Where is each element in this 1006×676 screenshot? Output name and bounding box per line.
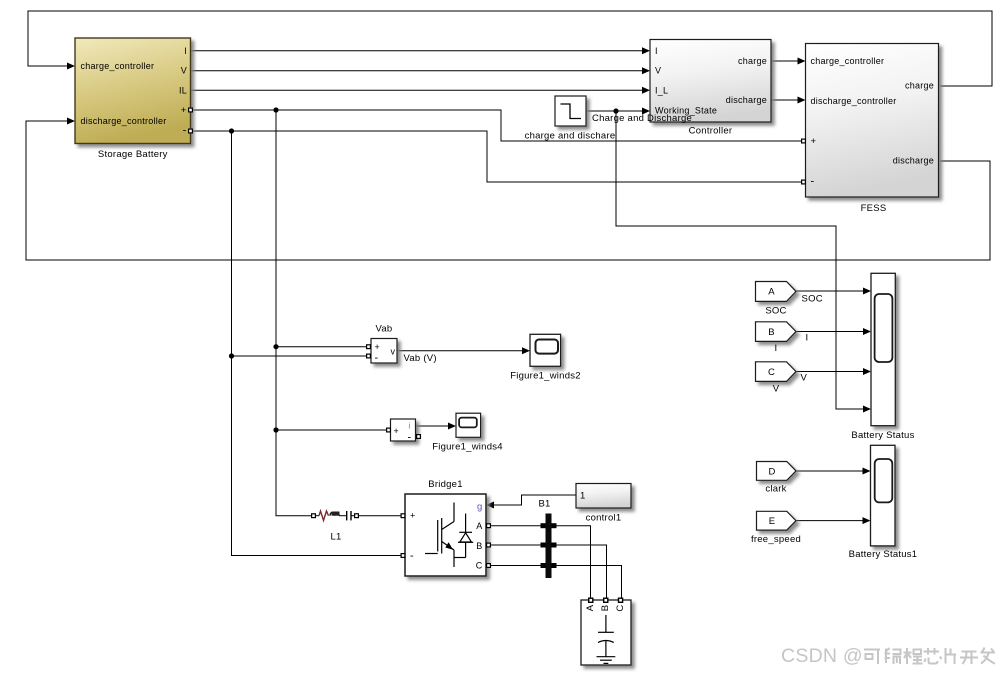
svg-text:charge_controller: charge_controller <box>81 61 155 71</box>
From tag A (SOC) <box>756 282 797 317</box>
wire vertical bus from + node down to L1 <box>276 110 311 516</box>
wire L1 -> Bridge1 + <box>359 515 401 517</box>
svg-text:+: + <box>811 136 817 147</box>
From tag B (I) <box>756 322 797 354</box>
svg-text:1: 1 <box>580 491 586 502</box>
anti-parallel diode inside Bridge1 <box>458 514 473 558</box>
arrowhead into Battery Status input 1 <box>863 288 871 295</box>
svg-text:CSDN @: CSDN @ <box>781 645 863 667</box>
svg-text:I_L: I_L <box>655 85 668 95</box>
subsystem Storage Battery <box>75 38 193 160</box>
bus bar B1 <box>538 499 556 579</box>
svg-text:V: V <box>181 66 187 76</box>
arrowhead into Battery Status1 input 2 <box>863 517 871 524</box>
svg-text:I: I <box>655 46 658 56</box>
svg-text:charge: charge <box>738 56 767 66</box>
junction node to Vab + <box>273 344 278 349</box>
wire plus (Storage Battery + -> FESS +) <box>191 110 802 141</box>
arrowhead into Controller V <box>642 67 650 74</box>
wire phase A (Bridge1 A -> load A) <box>491 526 591 598</box>
svg-text:Charge and Discharge: Charge and Discharge <box>592 113 692 124</box>
svg-text:C: C <box>476 560 483 570</box>
svg-text:E: E <box>769 516 776 527</box>
arrowhead into Controller I_L <box>642 87 650 94</box>
svg-text:IL: IL <box>179 85 187 95</box>
arrowhead into Battery Status input 4 <box>863 406 871 413</box>
svg-text:+: + <box>181 105 187 116</box>
svg-text:charge: charge <box>905 81 934 91</box>
wire phase C (Bridge1 C -> load C) <box>491 566 622 598</box>
current measurement sensor <box>386 419 421 444</box>
svg-text:-: - <box>408 432 412 444</box>
junction node to Vab - <box>229 353 234 358</box>
source block control1 <box>576 484 631 524</box>
svg-text:-: - <box>183 125 187 137</box>
IGBT emitter arrowhead <box>445 542 453 550</box>
wire I (Storage Battery I -> Controller I) <box>191 50 644 52</box>
arrowhead into Storage Battery charge_controller <box>67 63 75 70</box>
svg-text:Controller: Controller <box>689 126 733 137</box>
svg-text:B1: B1 <box>538 499 550 510</box>
wire working-state branch to Battery Status input 4 <box>616 111 864 409</box>
svg-text:discharge: discharge <box>726 95 767 105</box>
svg-text:discharge_controller: discharge_controller <box>811 96 897 106</box>
IGBT icon inside Bridge1 <box>425 503 466 568</box>
arrowhead into Battery Status1 input 1 <box>863 468 871 475</box>
svg-text:Vab (V): Vab (V) <box>404 353 437 364</box>
svg-text:A: A <box>585 604 596 611</box>
step source charge and dischare <box>525 96 616 142</box>
subsystem FESS <box>801 44 939 215</box>
wire Controller discharge -> FESS discharge_controller <box>771 99 798 101</box>
svg-text:C: C <box>768 367 775 378</box>
svg-text:charge and dischare: charge and dischare <box>525 131 616 142</box>
wire Controller charge -> FESS charge_controller <box>771 60 798 62</box>
wire From tag C -> Battery Status input 3 <box>796 371 864 373</box>
svg-text:I: I <box>184 46 187 56</box>
svg-text:control1: control1 <box>586 512 622 523</box>
wire Vab v -> Figure1_winds2 <box>397 350 523 352</box>
junction node on - wire <box>229 128 234 133</box>
svg-text:C: C <box>615 604 626 611</box>
arrowhead into Controller Working_State <box>642 108 650 115</box>
svg-text:g: g <box>477 502 483 513</box>
svg-text:Bridge1: Bridge1 <box>428 479 463 490</box>
arrowhead into Battery Status input 2 <box>863 328 871 335</box>
Bridge1 port squares <box>401 513 406 518</box>
svg-text:V: V <box>655 66 661 76</box>
svg-text:V: V <box>801 373 808 384</box>
universal bridge Bridge1 <box>401 479 492 576</box>
arrowhead into Bridge1 g (points left) <box>486 502 494 509</box>
From tag E (free_speed) <box>751 511 801 545</box>
svg-text:i: i <box>409 422 411 431</box>
svg-text:A: A <box>768 287 775 298</box>
svg-text:v: v <box>391 347 396 357</box>
svg-text:B: B <box>476 541 482 551</box>
svg-text:I: I <box>775 343 778 354</box>
wire vertical bus from - node down to Bridge1 - <box>232 131 401 556</box>
wire control1 -> Bridge1 g <box>493 495 576 505</box>
From tag D (clark) <box>757 462 797 495</box>
arrowhead into FESS discharge_controller <box>798 97 806 104</box>
wire branch to current sensor + <box>276 429 386 431</box>
svg-text:B: B <box>768 327 775 338</box>
watermark CJK glyphs (approximated strokes) <box>864 648 995 665</box>
series RLC branch L1 <box>311 511 359 543</box>
svg-text:+: + <box>375 342 381 352</box>
svg-text:Battery Status: Battery Status <box>851 430 914 441</box>
wire IL (Storage Battery IL -> Controller I_L) <box>191 89 644 91</box>
three-phase load block <box>581 598 631 666</box>
svg-text:charge_controller: charge_controller <box>811 56 885 66</box>
svg-text:Figure1_winds2: Figure1_winds2 <box>510 371 581 382</box>
svg-text:D: D <box>768 466 775 477</box>
subsystem Controller <box>650 40 771 137</box>
svg-text:Storage Battery: Storage Battery <box>98 149 168 160</box>
svg-text:Figure1_winds4: Figure1_winds4 <box>432 442 503 453</box>
svg-text:B: B <box>600 605 611 612</box>
wire From tag B -> Battery Status input 2 <box>796 331 864 333</box>
svg-text:+: + <box>410 511 416 521</box>
svg-text:free_speed: free_speed <box>751 534 801 545</box>
arrowhead into Battery Status input 3 <box>863 368 871 375</box>
svg-text:-: - <box>410 550 414 562</box>
wire minus (Storage Battery - -> FESS -) <box>191 131 802 182</box>
svg-text:+: + <box>394 426 400 436</box>
wire branch to Vab - <box>232 355 367 357</box>
svg-text:Battery Status1: Battery Status1 <box>849 549 918 560</box>
wire branch to Vab + <box>276 346 366 348</box>
arrowhead into Controller I <box>642 47 650 54</box>
wire From tag D -> Battery Status1 input 1 <box>796 470 864 472</box>
svg-text:-: - <box>811 176 815 188</box>
junction node to current sensor <box>273 427 278 432</box>
svg-text:discharge: discharge <box>893 156 934 166</box>
svg-text:V: V <box>773 383 780 394</box>
junction node on step output wire <box>613 108 618 113</box>
wire charge feedback loop (FESS charge -> Storage Battery charge_controller) <box>28 11 992 86</box>
svg-text:clark: clark <box>765 484 786 495</box>
arrowhead into Storage Battery discharge_controller <box>67 118 75 125</box>
svg-text:A: A <box>476 521 482 531</box>
scope Figure1_winds2 <box>510 334 581 381</box>
svg-text:FESS: FESS <box>861 203 887 214</box>
wire From tag A -> Battery Status input 1 <box>796 290 864 292</box>
voltage measurement Vab <box>366 324 397 364</box>
wire V (Storage Battery V -> Controller V) <box>191 70 644 72</box>
arrowhead into Figure1_winds2 <box>522 347 530 354</box>
svg-text:SOC: SOC <box>802 293 823 304</box>
wire phase B (Bridge1 B -> load B) <box>491 545 607 598</box>
junction node on + wire <box>273 107 278 112</box>
svg-text:-: - <box>375 352 379 364</box>
grounded capacitor icon in load <box>597 615 616 663</box>
svg-text:Vab: Vab <box>376 324 393 335</box>
From tag C (V) <box>756 362 797 395</box>
scope Battery Status <box>851 273 914 441</box>
arrowhead into Figure1_winds4 <box>448 423 456 430</box>
wire discharge feedback loop (FESS discharge -> Storage Battery discharge_controller) <box>26 121 990 260</box>
wire From tag E -> Battery Status1 input 2 <box>796 520 864 522</box>
scope Figure1_winds4 <box>432 413 503 452</box>
wire step output (charge and dischare -> Controller Working_State) <box>586 110 643 112</box>
arrowhead into FESS charge_controller <box>798 58 806 65</box>
svg-text:I: I <box>806 332 809 343</box>
svg-text:L1: L1 <box>330 532 341 543</box>
scope Battery Status1 <box>849 445 918 560</box>
wire current sensor i -> Figure1_winds4 <box>416 425 449 427</box>
svg-text:discharge_controller: discharge_controller <box>81 116 167 126</box>
svg-text:SOC: SOC <box>765 306 786 317</box>
